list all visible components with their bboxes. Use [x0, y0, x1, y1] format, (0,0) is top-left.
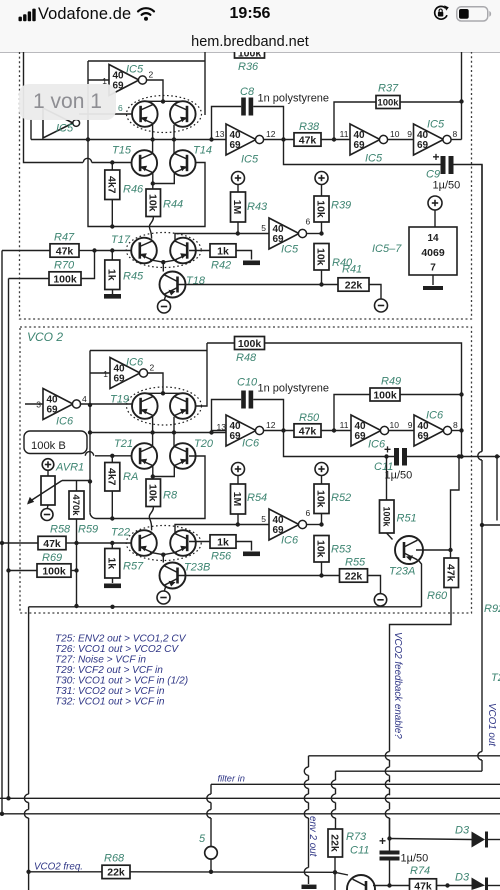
svg-text:69: 69 [230, 431, 242, 442]
ground under R42 [243, 261, 260, 266]
svg-text:R49: R49 [381, 376, 401, 388]
inverter IC5 B (pins 13-12) [226, 124, 256, 155]
wire CV bus H5 [0, 813, 500, 815]
resistor R40 10k [314, 244, 329, 271]
svg-text:R68: R68 [104, 853, 125, 865]
svg-text:7: 7 [430, 263, 436, 274]
transistor T24 at bottom edge [347, 875, 375, 890]
resistor R49 100k [334, 395, 370, 431]
wire CV bus H4 [0, 797, 500, 799]
wire T24 emitter rail [373, 885, 410, 887]
transistor T22 right [170, 530, 196, 556]
pot label box 100k B [24, 431, 87, 454]
wire negative supply rail [29, 606, 422, 608]
node plus supply R52 [315, 463, 328, 476]
transistor pair T17 dotted ellipse [126, 233, 201, 268]
svg-text:R53: R53 [331, 544, 352, 556]
svg-text:VCO1 out: VCO1 out [486, 703, 497, 747]
svg-text:1µ/50: 1µ/50 [401, 853, 429, 865]
svg-text:1k: 1k [217, 245, 229, 257]
wire T15 collector [152, 140, 154, 154]
svg-text:69: 69 [47, 405, 59, 416]
svg-text:69: 69 [230, 140, 242, 151]
svg-text:R39: R39 [331, 200, 351, 212]
svg-text:R50: R50 [299, 412, 320, 424]
wire emitter rail 2 [90, 432, 226, 434]
wire IC5a output to pair [146, 80, 163, 101]
capacitor C10 1n [241, 391, 246, 409]
svg-text:1: 1 [103, 369, 108, 379]
svg-text:T25: ENV2 out > VCO1,2 CV: T25: ENV2 out > VCO1,2 CV [55, 634, 187, 645]
wire T17 base [95, 250, 132, 252]
svg-text:IC6: IC6 [126, 357, 144, 369]
svg-text:4k7: 4k7 [106, 468, 118, 486]
svg-text:1n polystyrene: 1n polystyrene [258, 383, 330, 395]
svg-text:IC6: IC6 [56, 416, 74, 428]
wire T21 base [95, 455, 132, 457]
svg-text:13: 13 [215, 129, 225, 139]
transistor T21 [132, 443, 158, 469]
svg-text:69: 69 [114, 374, 126, 385]
resistor RA 4k7 [111, 456, 113, 463]
transistor pair right [170, 101, 196, 127]
svg-text:10k: 10k [146, 194, 158, 212]
transistor T23A [387, 533, 393, 540]
svg-text:T21: T21 [114, 438, 133, 450]
svg-text:5: 5 [261, 514, 266, 524]
svg-text:69: 69 [355, 431, 367, 442]
wire C8 right down to output node [253, 107, 441, 165]
svg-text:10k: 10k [315, 200, 327, 218]
svg-text:R60: R60 [427, 590, 448, 602]
resistor R39 10k [314, 196, 329, 222]
inverter IC5 C (pins 11-10) [350, 124, 380, 155]
inverter IC5 A (pins 1-2) [109, 65, 139, 96]
svg-text:8: 8 [453, 129, 458, 139]
wire IC6b output to pair base [80, 403, 132, 405]
resistor R56 1k [189, 541, 210, 543]
wire T14 collector [173, 140, 175, 154]
svg-text:VCO2 freq.: VCO2 freq. [34, 862, 83, 873]
svg-text:T23B: T23B [184, 562, 210, 574]
inverter IC6 F (pins 5-6) [269, 509, 299, 540]
svg-text:R8: R8 [163, 490, 178, 502]
wire T17 pair to IC5e input, pin5 rail [175, 234, 269, 241]
resistor R43 1M [231, 192, 246, 222]
wire oscillator loop 2 top [90, 350, 207, 352]
wire C9 to right rail [454, 165, 483, 452]
svg-text:69: 69 [354, 140, 366, 151]
svg-text:R38: R38 [299, 121, 320, 133]
svg-text:10k: 10k [146, 484, 158, 502]
diode D3 lower [472, 878, 486, 890]
wire T14 emitter to R44 top [153, 173, 175, 184]
wire T18 emitter [164, 295, 166, 301]
svg-text:22k: 22k [345, 570, 363, 582]
svg-text:RA: RA [123, 471, 138, 483]
transistor pair T22 dotted ellipse [126, 526, 201, 561]
wire VCO2 out rail right [407, 456, 500, 458]
wire R73 drop from VCO1out bus [335, 771, 337, 780]
VCO1 dashed enclosure [20, 52, 472, 319]
svg-text:5: 5 [199, 833, 206, 845]
resistor R60 47k [444, 558, 459, 588]
transistor pair T19 dotted ellipse [127, 387, 202, 425]
wire R60 down to feedback line [390, 588, 452, 752]
resistor R48 100k [207, 342, 235, 344]
wire VCO1 out drop to bus [478, 452, 482, 460]
wire T21 T20 collectors [152, 433, 154, 447]
wire pair collector link [145, 100, 183, 102]
wire T23B base rail [179, 575, 340, 577]
wire hidden inverter output to pair, pin 6 [79, 113, 132, 115]
wire T23A emitter to negative rail [419, 561, 422, 607]
svg-text:1µ/50: 1µ/50 [433, 180, 461, 192]
svg-text:47k: 47k [414, 880, 432, 890]
svg-text:100k: 100k [238, 52, 262, 59]
wire feedback into C11 mixer [389, 818, 391, 851]
resistor R38 47k [294, 133, 321, 146]
wire env2 bus H1 [309, 755, 500, 757]
wire C8 left to pin13 node [212, 107, 242, 140]
node plus supply R54 [232, 463, 245, 476]
svg-text:10k: 10k [315, 490, 327, 508]
svg-text:14: 14 [427, 233, 439, 244]
capacitor C8 1n [241, 98, 246, 116]
resistor R53 10k [314, 536, 329, 563]
svg-text:env 2 out: env 2 out [307, 816, 318, 858]
diode D3 upper [390, 839, 472, 840]
wire T22 pair to IC6e input pin5 rail [175, 525, 269, 534]
svg-text:R43: R43 [247, 201, 268, 213]
svg-text:IC5: IC5 [126, 64, 144, 76]
svg-text:47k: 47k [56, 245, 74, 257]
minus supply T18 [158, 300, 171, 313]
svg-text:69: 69 [417, 140, 429, 151]
transistor pair left [132, 101, 158, 127]
transistor pair T19 right [170, 393, 196, 419]
svg-text:VCO 2: VCO 2 [27, 330, 63, 344]
svg-text:R56: R56 [211, 551, 232, 563]
wire T21 emitter to R8 [152, 466, 154, 479]
svg-text:AVR1: AVR1 [55, 462, 84, 474]
svg-text:IC5: IC5 [365, 153, 383, 165]
resistor R45 1k [111, 251, 113, 261]
minus supply R55 [374, 594, 386, 606]
signal bars icon [18, 8, 38, 22]
svg-text:1k: 1k [217, 536, 229, 548]
svg-text:R46: R46 [123, 184, 144, 196]
inverter IC5 E (pins 5-6) [269, 218, 299, 249]
wire loop right to T14b base [204, 52, 206, 115]
wire feedback left rail down to R46 bottom [88, 140, 205, 227]
wire R8 bottom wiggle to T22 [149, 507, 153, 531]
svg-text:IC5: IC5 [427, 119, 445, 131]
ground env 2 out [302, 885, 317, 889]
transistor T18 [160, 272, 186, 298]
svg-text:R48: R48 [236, 352, 257, 364]
svg-text:12: 12 [266, 420, 276, 430]
svg-text:+: + [384, 443, 391, 457]
wire emitter rail y140 [31, 139, 226, 141]
inverter IC6 E (pins 9-8) [414, 415, 444, 446]
svg-text:R45: R45 [123, 271, 144, 283]
svg-text:10k: 10k [315, 248, 327, 266]
wire VCO2 freq rail [28, 607, 30, 794]
svg-text:T20: T20 [194, 438, 214, 450]
wire T18 base rail [179, 284, 339, 286]
svg-text:R36: R36 [238, 61, 259, 73]
svg-text:T29: VCF2 out > VCF in: T29: VCF2 out > VCF in [55, 665, 163, 676]
wire CV rail 2 down left edge [8, 279, 10, 799]
rotation lock icon [432, 5, 449, 22]
transistor T15 [132, 150, 158, 176]
wire pair2 collector link [145, 392, 183, 394]
svg-text:D3: D3 [455, 825, 470, 837]
svg-text:T14: T14 [193, 145, 212, 157]
wire oscillator loop top [88, 60, 205, 62]
wire C10 left to pin13 node [212, 400, 242, 433]
svg-text:47k: 47k [43, 538, 61, 550]
wire short stub right edge [496, 457, 498, 521]
wire T15 emitter to R44 [152, 173, 154, 189]
resistor R46 4k7 [111, 163, 113, 171]
wire top feedback rail [461, 52, 463, 140]
wire loop2 right to T20 base [189, 343, 207, 406]
svg-text:IC6: IC6 [426, 410, 444, 422]
svg-text:R44: R44 [163, 199, 183, 211]
svg-text:47k: 47k [444, 564, 456, 582]
wire from left rail to T15 base with hop [24, 52, 84, 163]
trimmer wiper arrow [28, 481, 62, 503]
svg-text:8: 8 [453, 420, 458, 430]
svg-text:T32: VCO1 out > VCF in: T32: VCO1 out > VCF in [55, 697, 165, 708]
svg-text:C11: C11 [350, 845, 369, 857]
svg-text:T2: T2 [491, 672, 500, 684]
svg-text:11: 11 [340, 420, 349, 430]
svg-text:10k: 10k [315, 540, 327, 558]
svg-text:T15: T15 [112, 145, 132, 157]
battery icon [456, 6, 492, 22]
svg-text:T26: VCO1 out > VCO2 CV: T26: VCO1 out > VCO2 CV [55, 644, 179, 655]
node A plus supply R43 [232, 172, 245, 185]
ground under R45 [112, 290, 114, 295]
wire IC5e out [306, 233, 321, 235]
inverter IC6 C (pins 13-12) [226, 415, 256, 446]
svg-text:IC5: IC5 [56, 123, 74, 135]
svg-text:R47: R47 [54, 232, 75, 244]
svg-text:1n polystyrene: 1n polystyrene [258, 93, 330, 105]
resistor R73 22k [328, 829, 343, 857]
svg-text:R37: R37 [378, 83, 399, 95]
svg-text:+: + [433, 150, 440, 164]
transistor T17 right [170, 238, 196, 264]
svg-text:D3: D3 [455, 872, 470, 884]
svg-text:9: 9 [407, 129, 412, 139]
wire IC6a output to pair [147, 373, 163, 393]
svg-text:IC5: IC5 [281, 244, 299, 256]
svg-text:9: 9 [408, 420, 413, 430]
wire IC5b out to R38 [263, 139, 294, 141]
node B plus supply R39 [315, 172, 328, 185]
wire R44 bottom wiggle to T17 [149, 217, 153, 239]
wire 470k junction rail [90, 456, 205, 519]
svg-text:IC6: IC6 [242, 438, 260, 450]
svg-text:IC6: IC6 [281, 535, 299, 547]
wire R38 to IC5c [321, 139, 350, 141]
inverter IC6 B (pins 3-4) [43, 389, 73, 420]
wire wiper to 470k [62, 480, 90, 482]
svg-text:22k: 22k [328, 834, 340, 852]
minus supply R41 [375, 299, 388, 312]
wifi icon [136, 7, 156, 21]
VCO2 dashed enclosure [20, 327, 472, 613]
svg-text:69: 69 [418, 431, 430, 442]
wire T21 base hop over loop rail [83, 455, 85, 457]
svg-text:100k B: 100k B [31, 440, 66, 452]
wire filter bus H3 [211, 783, 500, 785]
resistor R37 100k feedback [334, 102, 376, 140]
minus supply T23B [157, 591, 170, 604]
wire T20 emitter join [153, 466, 175, 477]
svg-text:R57: R57 [123, 561, 144, 573]
transistor pair T13 dotted ellipse [127, 96, 202, 133]
ground under R56 [243, 552, 260, 557]
transistor pair T19 left [132, 393, 158, 419]
inverter IC5 D (pins 9-8) [414, 124, 444, 155]
resistor R52 10k [314, 484, 329, 514]
svg-text:IC5–7: IC5–7 [372, 243, 402, 255]
svg-text:47k: 47k [299, 134, 317, 146]
svg-text:4: 4 [82, 394, 87, 404]
svg-text:+: + [379, 834, 386, 848]
svg-text:R92: R92 [484, 603, 500, 615]
svg-text:10: 10 [390, 129, 400, 139]
svg-text:1µ/50: 1µ/50 [385, 470, 413, 482]
wire feedback drop hops [385, 752, 389, 760]
transistor T17 left [131, 238, 157, 264]
svg-text:100k: 100k [373, 389, 397, 401]
svg-text:100k: 100k [377, 97, 399, 108]
wire IC5a input [88, 79, 109, 81]
wire T23A base feedback from VCO2 out [451, 457, 460, 559]
hidden inverter IC5 under overlay [43, 108, 73, 138]
svg-text:T31: VCO2 out > VCF in: T31: VCO2 out > VCF in [55, 686, 165, 697]
transistor T23B [160, 563, 186, 589]
svg-text:47k: 47k [299, 425, 317, 437]
resistor R36 100k cut at top [235, 47, 265, 58]
svg-text:R51: R51 [397, 513, 417, 525]
wire CV rail 1 down left edge [1, 251, 3, 814]
svg-text:11: 11 [340, 129, 349, 139]
wire VCO1 out rail lower [480, 523, 484, 527]
wire T22 emitters join [150, 552, 177, 554]
svg-text:R70: R70 [54, 260, 75, 272]
svg-text:1M: 1M [231, 492, 243, 507]
svg-text:2: 2 [149, 70, 154, 80]
wire VCO1out bus H2 [336, 770, 483, 772]
wire T22 base rail [77, 542, 132, 544]
svg-text:1M: 1M [231, 200, 243, 215]
wire R46 bottom [111, 200, 113, 227]
wire T17 emitters join [150, 260, 177, 262]
svg-text:1k: 1k [106, 557, 118, 569]
transistor T14 [170, 150, 196, 176]
svg-text:VCO2 feedback enable?: VCO2 feedback enable? [392, 632, 403, 739]
svg-text:T17: T17 [111, 234, 131, 246]
svg-text:22k: 22k [107, 867, 125, 879]
resistor R57 1k [111, 543, 113, 549]
wire terminal 5 up to filter bus [210, 784, 212, 794]
svg-text:R58: R58 [50, 524, 71, 536]
wire pair emitters down [152, 125, 154, 140]
svg-text:R74: R74 [410, 865, 430, 877]
resistor R8 10k [146, 479, 161, 507]
inverter IC6 A (pins 1-2) [110, 358, 140, 389]
svg-text:100k: 100k [382, 506, 392, 527]
svg-text:R41: R41 [342, 264, 362, 276]
svg-text:4069: 4069 [421, 247, 445, 259]
svg-text:470k: 470k [70, 494, 81, 516]
svg-text:2: 2 [150, 363, 155, 373]
wire pair2 emitters down [152, 417, 154, 433]
svg-text:4k7: 4k7 [106, 176, 118, 194]
svg-text:100k: 100k [238, 338, 262, 350]
svg-text:T23A: T23A [389, 566, 415, 578]
svg-text:6: 6 [306, 217, 311, 227]
wire C10 right down to VCO2 out rail [253, 400, 394, 457]
svg-text:R42: R42 [211, 260, 231, 272]
svg-text:100k: 100k [53, 273, 77, 285]
svg-text:12: 12 [266, 129, 276, 139]
svg-text:1k: 1k [106, 269, 118, 281]
svg-text:T30: VCO1 out > VCF in (1/2): T30: VCO1 out > VCF in (1/2) [55, 676, 188, 687]
svg-text:R73: R73 [346, 831, 367, 843]
svg-text:R69: R69 [42, 552, 62, 564]
wire IC6c out to R50 [263, 430, 294, 432]
svg-text:R54: R54 [247, 492, 267, 504]
svg-text:6: 6 [306, 508, 311, 518]
transistor T22 left [131, 530, 157, 556]
svg-text:R59: R59 [78, 524, 98, 536]
resistor R50 47k [294, 424, 321, 437]
wire T23B emitter [164, 586, 166, 592]
wire env 2 out drop [308, 756, 310, 767]
svg-text:22k: 22k [345, 279, 363, 291]
svg-text:R55: R55 [345, 557, 366, 569]
svg-text:T27: Noise > VCF in: T27: Noise > VCF in [55, 655, 146, 666]
resistor R42 1k [189, 250, 210, 252]
ground under R57 [112, 578, 114, 583]
resistor R54 1M [231, 484, 246, 514]
svg-text:IC5: IC5 [241, 154, 259, 166]
svg-text:100k: 100k [42, 565, 66, 577]
inverter IC6 D (pins 11-10) [351, 415, 381, 446]
resistor R51 100k [386, 457, 388, 501]
svg-text:C8: C8 [240, 86, 255, 98]
svg-text:T18: T18 [186, 275, 206, 287]
trimmer AVR1 [42, 459, 54, 471]
svg-text:5: 5 [261, 223, 266, 233]
svg-text:6: 6 [118, 103, 123, 113]
svg-text:10: 10 [390, 420, 400, 430]
resistor R59 470k [76, 481, 78, 491]
svg-text:C10: C10 [237, 377, 258, 389]
svg-text:T22: T22 [111, 527, 130, 539]
transistor T20 [170, 443, 196, 469]
wire R73 to T24 base [334, 857, 336, 890]
svg-text:filter in: filter in [218, 774, 245, 784]
